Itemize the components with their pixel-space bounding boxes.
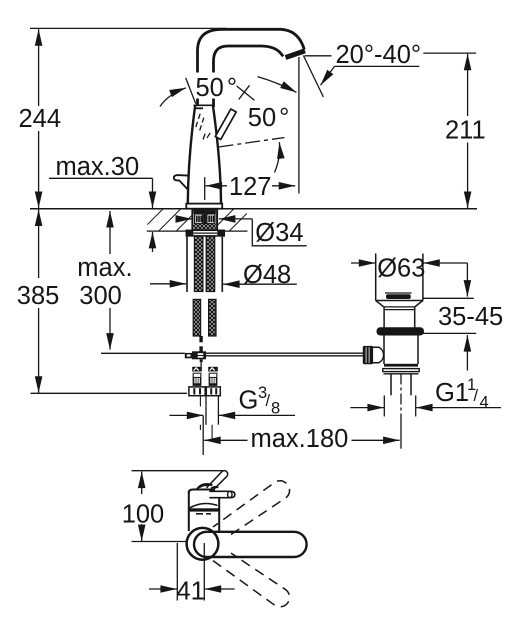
svg-text:20°-40°: 20°-40° [336, 41, 422, 69]
union nuts [189, 387, 205, 396]
50 deg lever arc arrow [275, 142, 280, 172]
dashed swivel capsule lower [213, 553, 290, 607]
lever rod raised [215, 109, 236, 140]
dim 385 [38, 210, 40, 279]
dim 100 [141, 472, 143, 494]
top reference line [30, 27, 226, 29]
body left edge [188, 105, 195, 203]
50 deg upper line A [186, 78, 196, 104]
cup bottom line [376, 300, 423, 302]
dim max.300 [109, 211, 111, 254]
svg-text:127: 127 [229, 173, 272, 201]
svg-text:211: 211 [445, 117, 486, 145]
deck hatching right [217, 210, 247, 231]
svg-text:/: / [474, 387, 479, 405]
100 top tick [132, 470, 223, 472]
o-ring [377, 327, 425, 335]
shank [192, 209, 217, 230]
dim max.30 [49, 177, 153, 179]
dashed swivel capsule upper [213, 481, 290, 535]
lever raised hairpin loop [207, 471, 228, 491]
svg-text:4: 4 [480, 394, 489, 412]
svg-text:50°: 50° [196, 74, 238, 102]
rod clamp [199, 336, 202, 342]
deck line [30, 208, 477, 210]
svg-text:Ø63: Ø63 [377, 255, 425, 283]
svg-text:max.: max. [77, 254, 132, 282]
deck bottom line [147, 230, 248, 232]
svg-text:100: 100 [122, 501, 165, 529]
lever top view [209, 491, 235, 497]
svg-text:Ø48: Ø48 [243, 261, 291, 289]
dim 211 [423, 52, 476, 54]
thumbscrew [185, 353, 192, 358]
small dash marks [196, 513, 203, 515]
svg-text:385: 385 [17, 282, 60, 310]
spout capsule [194, 532, 307, 557]
dim 244 [38, 29, 40, 106]
dark band [189, 508, 218, 511]
20-40 leader diagonal [303, 56, 323, 98]
lever axis dash-dot line [219, 138, 285, 148]
escutcheon circle [187, 528, 219, 560]
swivel joint lines [194, 104, 213, 106]
supply tubes [199, 397, 201, 407]
svg-text:max.180: max.180 [251, 425, 349, 453]
dim diam63 [351, 262, 375, 264]
plug cap [385, 292, 412, 294]
lower body walls [383, 336, 385, 365]
svg-text:300: 300 [79, 282, 122, 310]
dim diam48 [150, 283, 186, 285]
100 bottom tick [132, 541, 187, 543]
white bg for 50 deg 1 [195, 73, 237, 99]
spout inner profile [214, 46, 284, 107]
rod stub below clamp [200, 359, 203, 362]
boss dome [373, 347, 384, 363]
svg-text:/: / [266, 392, 271, 410]
svg-text:G: G [239, 387, 259, 415]
dim 35-45 [466, 263, 468, 297]
svg-text:Ø34: Ø34 [255, 219, 303, 247]
tailpipe [390, 374, 392, 395]
outer tube lines [186, 236, 188, 292]
waste cup walls [375, 254, 377, 301]
x mark [236, 86, 254, 101]
dim max.180 [202, 416, 204, 455]
body right edge [213, 105, 221, 203]
cap swoosh [190, 504, 218, 509]
svg-text:41: 41 [177, 578, 205, 606]
neck walls [383, 307, 385, 328]
svg-text:35-45: 35-45 [438, 303, 503, 331]
hose end fittings [192, 367, 202, 372]
svg-text:244: 244 [19, 105, 62, 133]
svg-text:G1: G1 [435, 379, 469, 407]
spout outlet vertical reference line [298, 57, 300, 194]
knurled nut [363, 346, 373, 364]
dim G1 1/4 [383, 396, 385, 417]
svg-text:max.30: max.30 [56, 153, 140, 181]
dim 41 [176, 543, 178, 601]
bottom rings [384, 364, 418, 367]
dim diam34 [176, 218, 192, 220]
head box [188, 491, 190, 532]
cartridge dashed lines [196, 113, 201, 127]
flare [376, 301, 384, 307]
lever side hook [174, 175, 189, 190]
base plate [186, 204, 222, 209]
spout outlet face [285, 48, 306, 60]
hose braid segment 2 [193, 299, 200, 336]
385 bottom tick line [31, 392, 188, 394]
20-40 label arrow [321, 66, 335, 85]
pop-up pull rod horizontal [101, 352, 185, 354]
mounting flange [186, 230, 224, 236]
svg-text:50°: 50° [248, 104, 290, 132]
20-40 underline [334, 65, 419, 67]
swivel arc arrow [258, 77, 297, 93]
hose braid segment 1 [194, 236, 203, 292]
dim G3/8 arrows [170, 414, 204, 416]
50 deg upper arc arrow [160, 88, 186, 107]
spout outer profile [198, 29, 305, 106]
svg-text:8: 8 [271, 400, 280, 418]
deck hatching left [147, 210, 192, 231]
dim 127 [204, 177, 206, 200]
